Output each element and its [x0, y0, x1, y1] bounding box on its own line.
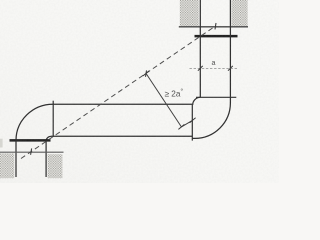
elbow E2 inner corner arc: [193, 97, 201, 105]
elbow E2 outer corner arc: [192, 103, 230, 139]
elbow E1 outer corner arc: [16, 104, 53, 140]
dimension ge2a line: [146, 73, 181, 127]
scan smudge at left edge: [0, 139, 3, 148]
floor sleeve flange bar: [10, 139, 51, 142]
paper noise overlay: [0, 0, 279, 183]
ceiling underside surface line: [179, 26, 248, 28]
centerline tick at ceiling crossing: [215, 23, 216, 29]
riser pipe left wall: [199, 0, 201, 97]
dashed offset centerline: [21, 26, 216, 159]
horizontal pipe bottom wall: [51, 135, 192, 137]
horizontal pipe top wall: [53, 103, 192, 105]
dimension ge2a tick at pipe mouth: [190, 118, 196, 123]
dimension ge2a auxiliary leader to bend start point: [181, 120, 192, 127]
dimension ge2a tick upper: [143, 71, 149, 76]
riser pipe right wall: [229, 0, 231, 103]
ceiling slab hatch right block: [232, 0, 248, 26]
ceiling slab hatch left block: [180, 0, 199, 26]
dimension ge2a tick middle: [178, 124, 184, 129]
elbow E1 inner corner arc: [46, 136, 51, 141]
floor surface line: [0, 151, 64, 153]
floor slab hatch left block: [0, 153, 14, 178]
centerline tick at floor crossing: [31, 148, 32, 154]
centerline tick at bend point: [146, 70, 147, 76]
lower pipe right wall: [45, 140, 47, 177]
lower pipe left wall: [15, 139, 17, 177]
elbow E2 socket mouth line (horizontal side): [191, 105, 193, 141]
dimension a line: [190, 68, 238, 70]
ceiling sleeve flange bar: [195, 35, 238, 38]
paper background: [0, 0, 279, 183]
floor slab hatch right block: [48, 154, 63, 178]
elbow E1 socket mouth line: [52, 101, 54, 137]
elbow E2 socket mouth line (top side): [196, 96, 236, 98]
dimension a tick left: [198, 66, 203, 71]
dimension a tick right: [228, 66, 233, 71]
